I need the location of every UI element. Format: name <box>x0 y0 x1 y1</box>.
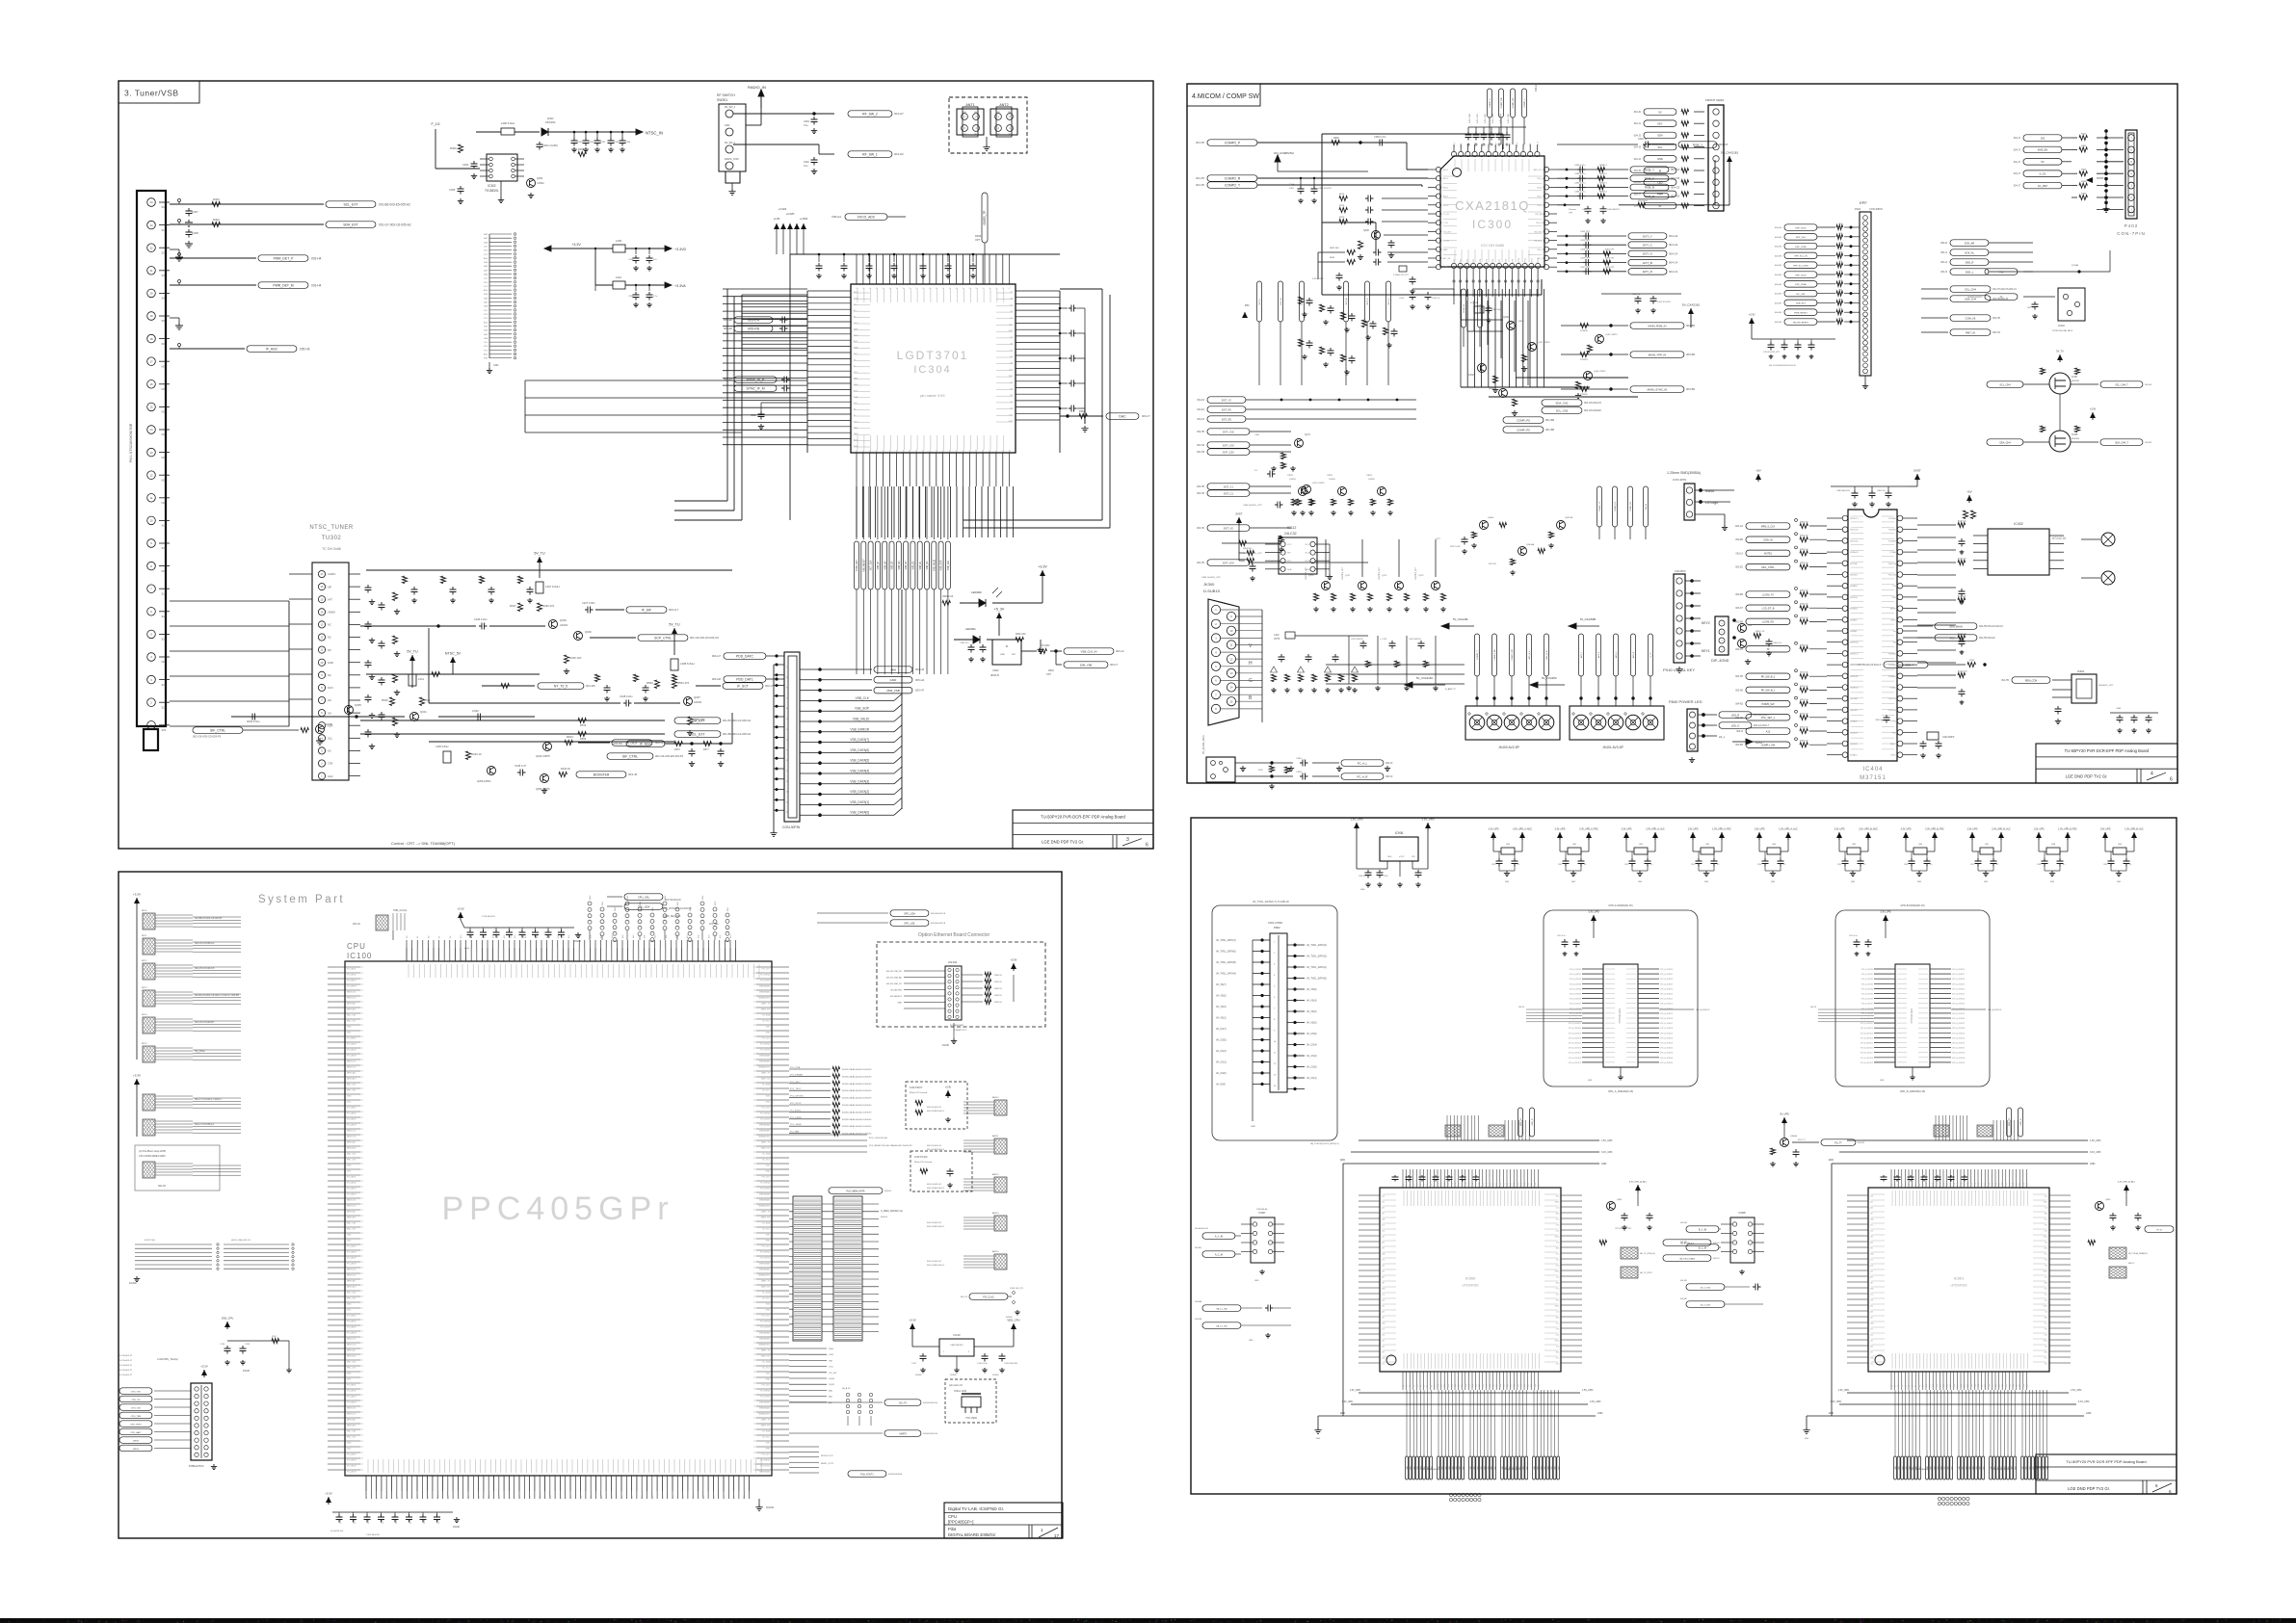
svg-text:SD6: SD6 <box>1460 1466 1462 1469</box>
svg-text:P40/AD0: P40/AD0 <box>1850 720 1858 723</box>
tuner TU302 (NTSC_TUNER) <box>309 525 360 780</box>
svg-text:15: 15 <box>321 597 324 601</box>
svg-text:SD4: SD4 <box>1548 1466 1550 1469</box>
resistor R347 <box>510 603 523 611</box>
svg-text:D3: D3 <box>1902 1385 1904 1387</box>
svg-text:GND: GND <box>890 678 898 682</box>
svg-text:UPD_A_SDRD11: UPD_A_SDRD11 <box>1861 1022 1873 1025</box>
TO252 dashed detail <box>945 1379 996 1423</box>
svg-text:UPD_D: UPD_D <box>1532 1118 1534 1125</box>
transistor Q304 <box>527 176 545 198</box>
svg-text:VIN: VIN <box>1412 856 1415 858</box>
svg-text:C184: C184 <box>1254 434 1260 436</box>
svg-text:CLK: CLK <box>1556 1208 1560 1210</box>
FOR PROT dashed box 2 <box>910 1151 972 1191</box>
svg-text:VA_TVDL_DATA(2): VA_TVDL_DATA(2) <box>1306 955 1327 958</box>
svg-text:D32: D32 <box>2002 1384 2004 1387</box>
svg-text:PCI_AD29: PCI_AD29 <box>347 1326 356 1329</box>
memory lower rows <box>789 1348 837 1404</box>
svg-text:P10/SEG: P10/SEG <box>1888 518 1896 520</box>
svg-text:C104: C104 <box>355 1520 356 1524</box>
svg-text:3. Tuner/VSB: 3. Tuner/VSB <box>124 89 179 98</box>
svg-text:27: 27 <box>786 801 789 803</box>
IC404 right rows <box>1917 521 1968 705</box>
svg-text:3: 3 <box>963 127 965 130</box>
IC304 right pins <box>1009 291 1060 423</box>
svg-text:pin name XXX: pin name XXX <box>920 393 945 398</box>
svg-text:VA_TVDL_DATA(0): VA_TVDL_DATA(0) <box>1306 978 1327 981</box>
svg-text:IF_SCT: IF_SCT <box>737 684 749 688</box>
svg-text:B38: B38 <box>560 1496 562 1499</box>
svg-text:001-C4-001-J4: 001-C4-001-J4 <box>927 1145 941 1147</box>
svg-text:C916: C916 <box>1904 864 1908 866</box>
transistor Q153 <box>1588 334 1619 353</box>
svg-text:VSB_SOP: VSB_SOP <box>941 560 943 570</box>
svg-text:C341: C341 <box>589 142 594 144</box>
svg-text:R513: R513 <box>580 723 587 727</box>
svg-text:UART0: UART0 <box>899 1432 907 1435</box>
svg-text:GND: GND <box>493 364 499 367</box>
svg-text:IIC_SDA: IIC_SDA <box>762 1014 770 1017</box>
svg-text:PCI_AD29: PCI_AD29 <box>347 1049 356 1052</box>
svg-text:005-H4: 005-H4 <box>915 678 925 682</box>
svg-text:UPD_A_SDRD2: UPD_A_SDRD2 <box>1570 978 1581 981</box>
svg-text:23: 23 <box>149 223 153 227</box>
svg-text:MEM_D15: MEM_D15 <box>347 1339 356 1341</box>
svg-text:P66/TM1: P66/TM1 <box>1850 575 1858 577</box>
svg-text:PCI_AD28: PCI_AD28 <box>347 1401 356 1404</box>
svg-text:GND: GND <box>1657 157 1663 161</box>
svg-text:IIC_SDA: IIC_SDA <box>762 1084 770 1086</box>
svg-text:R495 100: R495 100 <box>1800 727 1809 729</box>
svg-text:SD1: SD1 <box>1931 1466 1933 1469</box>
svg-text:C132: C132 <box>245 1344 251 1346</box>
IC404 M37151 microcontroller <box>1848 510 1897 781</box>
svg-text:L902: L902 <box>1639 844 1643 846</box>
svg-text:7: 7 <box>1215 693 1217 696</box>
svg-text:IF_SIF: IF_SIF <box>642 608 651 612</box>
svg-text:MEM_A11: MEM_A11 <box>347 1419 356 1422</box>
svg-text:CNVss: CNVss <box>1890 619 1896 621</box>
svg-text:0.1: 0.1 <box>1517 864 1520 866</box>
bottom right misc caps <box>2110 708 2158 733</box>
svg-text:PCI_AD29: PCI_AD29 <box>347 1188 356 1191</box>
svg-text:GND: GND <box>1870 1289 1874 1291</box>
svg-text:6: 6 <box>150 610 152 614</box>
connector P401 top-right <box>1634 98 1725 211</box>
svg-text:002-L5: 002-L5 <box>1736 552 1744 555</box>
svg-text:CIN: CIN <box>1870 1202 1874 1204</box>
svg-text:VA_TVDGA_DATA(0-5): VA_TVDGA_DATA(0-5) <box>2128 1252 2148 1255</box>
svg-text:VCC: VCC <box>1287 544 1292 546</box>
svg-text:LCOM_RX: LCOM_RX <box>1762 621 1774 624</box>
svg-text:PCI_AD28: PCI_AD28 <box>347 1193 356 1196</box>
svg-text:P7: P7 <box>1915 1184 1917 1186</box>
svg-text:GND: GND <box>2050 881 2055 883</box>
svg-text:004-H5: 004-H5 <box>1775 275 1782 276</box>
svg-text:Q341: Q341 <box>420 710 427 714</box>
svg-text:COMP_PR: COMP_PR <box>1513 97 1515 108</box>
svg-text:5V_TU: 5V_TU <box>534 552 545 556</box>
svg-text:001-H4-003-C8: 001-H4-003-C8 <box>931 913 946 915</box>
svg-text:004-J0: 004-J0 <box>1634 111 1642 114</box>
IC304 left bus <box>742 291 807 453</box>
svg-text:001-B6-003-G2-005-A2: 001-B6-003-G2-005-A2 <box>723 732 752 736</box>
svg-text:4DM-R: 4DM-R <box>990 673 999 677</box>
svg-text:IIC_SCL: IIC_SCL <box>762 1229 770 1231</box>
svg-text:3.3V_UPD: 3.3V_UPD <box>2090 1151 2101 1154</box>
svg-text:X302: X302 <box>992 668 999 672</box>
svg-text:D35: D35 <box>2013 1384 2015 1387</box>
svg-text:PC_A_L: PC_A_L <box>1358 761 1368 765</box>
svg-text:D18: D18 <box>1954 1384 1956 1387</box>
svg-text:P10/SEG: P10/SEG <box>1888 653 1896 655</box>
svg-text:VA_LC_IN1: VA_LC_IN1 <box>1216 1324 1227 1327</box>
svg-text:003-B6: 003-B6 <box>1686 387 1695 391</box>
svg-text:11: 11 <box>1274 1053 1276 1055</box>
svg-text:C97x 0.1u: C97x 0.1u <box>1849 935 1858 937</box>
svg-text:UART_TX: UART_TX <box>761 1419 771 1422</box>
svg-text:VA_TV_UPD2: VA_TV_UPD2 <box>1640 1271 1653 1274</box>
svg-text:NC: NC <box>162 660 166 664</box>
svg-text:D7: D7 <box>1915 1385 1917 1387</box>
svg-text:008-C2: 008-C2 <box>2128 1263 2134 1265</box>
svg-text:004-H5: 004-H5 <box>1775 322 1782 324</box>
svg-text:A18: A18 <box>503 935 506 938</box>
svg-text:R509: R509 <box>580 737 587 741</box>
svg-text:C1895: C1895 <box>1296 758 1303 760</box>
svg-text:UPD_A_SDRD30: UPD_A_SDRD30 <box>1952 1036 1965 1039</box>
svg-text:Rx49 100: Rx49 100 <box>1958 634 1966 636</box>
svg-text:TU-50PY20 PVR-DCR-EPF PDP Anal: TU-50PY20 PVR-DCR-EPF PDP Analog Board <box>2065 748 2150 753</box>
svg-text:SD7: SD7 <box>2015 1466 2017 1469</box>
svg-text:D23: D23 <box>1971 1384 1973 1387</box>
IC304 bottom fan wires <box>857 486 948 539</box>
svg-text:UPD_A_SDRD8: UPD_A_SDRD8 <box>1570 1008 1581 1010</box>
IC900 uPD64083 (left QFP) <box>1314 1115 1612 1479</box>
svg-text:IN1-2: IN1-2 <box>1443 170 1449 171</box>
svg-text:GND: GND <box>1571 881 1576 883</box>
right of left QFP cluster <box>1599 1181 1720 1262</box>
svg-text:D6: D6 <box>1424 1385 1426 1387</box>
svg-text:NC: NC <box>162 478 166 482</box>
svg-text:GND: GND <box>1555 1214 1559 1216</box>
svg-text:EXT_S: EXT_S <box>1388 298 1390 304</box>
svg-text:8: 8 <box>1215 707 1217 711</box>
svg-text:DO0: DO0 <box>1556 1231 1559 1233</box>
svg-text:5_CN: 5_CN <box>2040 172 2046 176</box>
svg-text:4.MICOM / COMP SW: 4.MICOM / COMP SW <box>1192 93 1259 100</box>
svg-text:CPU: CPU <box>948 1514 957 1519</box>
svg-text:P42/INT1: P42/INT1 <box>1850 609 1858 611</box>
svg-text:1: 1 <box>1274 942 1275 944</box>
svg-text:Option Ethernet Board Connecto: Option Ethernet Board Connector <box>918 932 990 938</box>
svg-text:P12: P12 <box>1933 1183 1935 1186</box>
svg-text:AD1: AD1 <box>1870 1276 1873 1279</box>
svg-text:C480 680u/10V: C480 680u/10V <box>1836 490 1851 492</box>
IC300 inner label bands <box>1443 159 1542 262</box>
svg-text:GND: GND <box>1555 1283 1559 1285</box>
svg-text:SCL: SCL <box>1657 145 1663 149</box>
svg-text:R364: R364 <box>1079 410 1085 413</box>
svg-text:SD6: SD6 <box>1523 1466 1525 1469</box>
P301 right net rows <box>816 589 925 817</box>
svg-text:Q150: Q150 <box>1503 316 1510 319</box>
svg-text:OVER_TP: OVER_TP <box>983 211 987 225</box>
svg-text:R679: R679 <box>1339 217 1345 219</box>
net PWR_DET_M <box>170 280 322 289</box>
svg-text:R455 1.2K: R455 1.2K <box>1755 631 1765 633</box>
svg-text:10: 10 <box>1230 629 1233 633</box>
svg-text:12: 12 <box>1274 1063 1276 1065</box>
svg-text:D27: D27 <box>1985 1384 1987 1387</box>
svg-text:MAIN_RGB_IN: MAIN_RGB_IN <box>1649 324 1667 327</box>
svg-text:SY1: SY1 <box>484 350 488 352</box>
P3 CPU inner tick bands <box>345 948 772 1491</box>
comp input RC cluster <box>1289 177 1428 225</box>
svg-text:25: 25 <box>786 792 789 794</box>
svg-text:REM_CON: REM_CON <box>2025 679 2038 682</box>
svg-text:P19: P19 <box>1468 1183 1470 1186</box>
svg-text:VDD: VDD <box>347 1033 352 1034</box>
svg-text:V: V <box>1249 643 1253 649</box>
capacitor C327 <box>582 601 595 614</box>
svg-text:CTRL: CTRL <box>1443 267 1449 269</box>
vert wires from IC300 bottom <box>1461 301 1528 385</box>
svg-text:001-C5-C5-003-C5: 001-C5-C5-003-C5 <box>195 967 215 970</box>
svg-text:SDA_EXT: SDA_EXT <box>1796 302 1807 305</box>
svg-text:B46: B46 <box>601 1496 603 1499</box>
svg-text:1: 1 <box>1721 623 1723 625</box>
panel 2 border (4.MICOM / COMP SW) <box>1187 84 2177 783</box>
svg-text:C105: C105 <box>368 1520 370 1524</box>
svg-text:GND: GND <box>963 134 967 136</box>
svg-text:SD3: SD3 <box>1938 1466 1940 1469</box>
svg-text:0.1u: 0.1u <box>804 165 808 168</box>
svg-text:NC: NC <box>162 410 166 414</box>
svg-text:UPD_A_SDRD19: UPD_A_SDRD19 <box>1952 982 1965 985</box>
P2 mid vertical pills <box>1462 289 1649 539</box>
svg-text:MEMADDR2: MEMADDR2 <box>759 1344 771 1347</box>
svg-text:004-J7: 004-J7 <box>2014 161 2021 164</box>
svg-text:29: 29 <box>786 812 789 814</box>
svg-text:GND: GND <box>1771 881 1776 883</box>
svg-text:IIC_SCL: IIC_SCL <box>762 1021 770 1023</box>
svg-text:RESET: RESET <box>1890 744 1897 746</box>
svg-text:OPT: OPT <box>1569 212 1573 214</box>
svg-text:COMP_Y: COMP_Y <box>1490 98 1491 108</box>
svg-text:MEM_A11: MEM_A11 <box>347 1211 356 1214</box>
PCI signal rows right <box>789 1066 871 1136</box>
svg-text:R164 1K: R164 1K <box>994 1002 1002 1004</box>
svg-text:RADIO_COM: RADIO_COM <box>725 158 738 161</box>
svg-text:P19: P19 <box>1957 1183 1959 1186</box>
IC304 supply arrows <box>774 207 808 254</box>
svg-text:3.3V_UPD_B_PSC: 3.3V_UPD_B_PSC <box>1925 829 1944 831</box>
svg-text:P15/AD: P15/AD <box>1889 551 1896 554</box>
svg-text:GND: GND <box>1704 881 1709 883</box>
svg-text:C408 OPT: C408 OPT <box>1580 249 1591 250</box>
svg-text:CLK: CLK <box>484 342 488 344</box>
svg-text:OUT7: OUT7 <box>1499 259 1501 264</box>
svg-text:VSB_D2: VSB_D2 <box>913 561 915 570</box>
svg-text:VCC: VCC <box>1870 1329 1874 1331</box>
svg-text:P61/SCL1: P61/SCL1 <box>1850 653 1859 655</box>
left QFP bottom circle rows <box>1449 1493 1481 1501</box>
transistor Q303 A1504 <box>549 618 568 629</box>
svg-text:CLK: CLK <box>484 310 488 312</box>
svg-text:DQM0: DQM0 <box>829 1378 835 1380</box>
svg-text:UPD_A_SDRD16: UPD_A_SDRD16 <box>1660 968 1673 971</box>
svg-text:1.5V_UPD_B_PSC: 1.5V_UPD_B_PSC <box>2058 829 2077 831</box>
svg-text:7: 7 <box>150 587 152 590</box>
svg-text:RA2: RA2 <box>484 297 488 300</box>
memory block A (UPD_A_SDRAM) <box>1518 903 1710 1093</box>
svg-text:1.5V_UPD_A_PSC: 1.5V_UPD_A_PSC <box>1712 828 1731 831</box>
svg-text:UPD_A_SDRD28: UPD_A_SDRD28 <box>1952 1027 1965 1030</box>
+3.3V filter L309 <box>544 239 686 271</box>
NTSC_IN arrow <box>628 129 663 136</box>
RCA vertical pills A <box>1475 634 1549 695</box>
svg-text:UPD_A_SDRD29: UPD_A_SDRD29 <box>1660 1032 1673 1034</box>
svg-text:RESET: RESET <box>1890 609 1897 611</box>
svg-text:17: 17 <box>786 749 789 751</box>
svg-text:DIGITAL BOARD 2005/01/: DIGITAL BOARD 2005/01/ <box>948 1532 996 1537</box>
VCXO pill right <box>975 193 988 284</box>
svg-text:DA7: DA7 <box>484 237 488 240</box>
svg-text:YIN: YIN <box>1870 1283 1874 1285</box>
svg-text:001-C4-B11-00-L2: 001-C4-B11-00-L2 <box>927 1188 945 1190</box>
svg-text:DGND: DGND <box>766 1505 774 1509</box>
+3.3VA filter L310 <box>594 248 686 307</box>
svg-text:SY1: SY1 <box>484 286 488 288</box>
svg-text:MEMDATA0: MEMDATA0 <box>759 1263 771 1266</box>
capacitor C308 <box>185 229 198 248</box>
P2 mid right pills <box>1921 286 2017 336</box>
svg-text:C407 OPT: C407 OPT <box>1580 267 1591 269</box>
svg-text:004-J2: 004-J2 <box>1634 134 1642 137</box>
svg-text:GND: GND <box>347 1235 352 1237</box>
connector PX40 LOCAL KEY <box>1663 570 1710 672</box>
svg-text:EBC_CS1: EBC_CS1 <box>347 1160 356 1162</box>
svg-text:16: 16 <box>149 382 153 386</box>
svg-text:B36: B36 <box>550 1496 552 1499</box>
svg-text:R470: R470 <box>1258 770 1264 772</box>
svg-text:C107: C107 <box>396 1520 398 1524</box>
svg-text:MEM_A10: MEM_A10 <box>347 1355 356 1358</box>
svg-text:SD5: SD5 <box>1551 1466 1553 1469</box>
svg-text:40KHz/15_OPT: 40KHz/15_OPT <box>2098 685 2114 687</box>
svg-text:JK300: JK300 <box>1203 582 1215 587</box>
svg-text:004-H5: 004-H5 <box>1775 312 1782 314</box>
svg-text:+5V: +5V <box>1966 490 1971 494</box>
svg-text:D16: D16 <box>1947 1384 1949 1387</box>
connector P601 (tuner board input) <box>129 191 170 750</box>
svg-text:IN1_NV-1: IN1_NV-1 <box>1534 241 1544 243</box>
IC100 top pin stubs <box>406 935 736 961</box>
svg-text:AR111: AR111 <box>992 1135 999 1138</box>
svg-text:VSB_DATA[6]: VSB_DATA[6] <box>850 748 869 752</box>
svg-text:P24: P24 <box>1486 1183 1488 1186</box>
svg-text:C441 100/16V: C441 100/16V <box>1409 639 1421 641</box>
svg-text:System Part: System Part <box>258 894 345 905</box>
svg-text:R309: R309 <box>450 146 457 150</box>
svg-text:SD5: SD5 <box>1488 1466 1490 1469</box>
svg-text:OUT1: OUT1 <box>1461 259 1463 264</box>
svg-text:UPD_A_SDRD6: UPD_A_SDRD6 <box>1861 998 1873 1001</box>
bottom right cap pair <box>1601 294 1681 313</box>
svg-text:UPD_B_SDRA(0-4): UPD_B_SDRA(0-4) <box>1911 1468 1928 1471</box>
svg-text:P20/COM: P20/COM <box>1888 698 1897 700</box>
svg-text:TK15819L: TK15819L <box>485 189 499 193</box>
svg-text:PCI_IDSEL: PCI_IDSEL <box>790 1110 802 1112</box>
svg-text:M37151: M37151 <box>1860 775 1887 781</box>
svg-text:B0: B0 <box>366 1497 368 1499</box>
svg-text:A_C_IN: A_C_IN <box>1215 1253 1224 1256</box>
svg-text:OUT5: OUT5 <box>1487 259 1489 264</box>
svg-text:PCI_GNT0: PCI_GNT0 <box>760 1189 771 1191</box>
svg-text:R481 100: R481 100 <box>1800 536 1809 537</box>
svg-text:011-B5-C5A-B4-0-B-005-C5-E16-F: 011-B5-C5A-B4-0-B-005-C5-E16-F5 <box>842 1104 871 1107</box>
svg-text:B66: B66 <box>703 1496 705 1499</box>
svg-text:VDD_CPU: VDD_CPU <box>222 1317 234 1321</box>
svg-text:UPD_A_SDRD32: UPD_A_SDRD32 <box>1660 1047 1673 1050</box>
svg-text:B26: B26 <box>499 1496 501 1499</box>
svg-text:C141: C141 <box>911 1363 917 1365</box>
svg-text:GND: GND <box>1597 1412 1603 1415</box>
svg-text:P1: P1 <box>1407 1184 1409 1186</box>
svg-text:CON-7PIN: CON-7PIN <box>2117 231 2146 236</box>
svg-text:D754A4: D754A4 <box>2072 264 2079 267</box>
svg-text:IIC_SCL: IIC_SCL <box>762 1090 770 1092</box>
svg-text:AV3_Y: AV3_Y <box>1580 651 1583 658</box>
svg-text:4: 4 <box>1009 127 1011 130</box>
svg-text:D36: D36 <box>1528 1384 1530 1387</box>
svg-text:VD5: VD5 <box>484 314 488 316</box>
svg-text:D15: D15 <box>1943 1384 1945 1387</box>
svg-text:P22: P22 <box>1479 1183 1481 1186</box>
svg-text:003-D2: 003-D2 <box>881 1217 888 1218</box>
transistor Q306 A1504 <box>477 767 496 784</box>
svg-text:R149: R149 <box>702 896 704 900</box>
svg-text:R684: R684 <box>1330 257 1335 259</box>
svg-text:D26: D26 <box>1982 1384 1984 1387</box>
svg-text:GND: GND <box>347 1374 352 1375</box>
svg-text:MEM_A10: MEM_A10 <box>347 1008 356 1011</box>
mid long wires ladder to IC304 <box>525 380 807 432</box>
svg-text:VA_CS(0): VA_CS(0) <box>1306 1066 1317 1069</box>
svg-text:C114 68u/10V: C114 68u/10V <box>482 916 495 918</box>
IC100 right pin stubs <box>759 967 789 1474</box>
svg-text:C360: C360 <box>751 414 756 417</box>
svg-text:002-H4: 002-H4 <box>1993 331 2001 334</box>
svg-text:LED_R: LED_R <box>1731 713 1739 717</box>
svg-text:SY1: SY1 <box>484 254 488 256</box>
svg-text:+3.3V: +3.3V <box>909 1319 916 1322</box>
svg-text:004-C5: 004-C5 <box>1671 185 1680 189</box>
svg-text:PCI_AD29: PCI_AD29 <box>347 1118 356 1121</box>
svg-text:001-B5-IRQ: 001-B5-IRQ <box>890 990 902 992</box>
diode D301 KDS184 <box>541 117 568 136</box>
svg-text:004-J1: 004-J1 <box>1634 122 1642 125</box>
svg-text:C409 OPT: C409 OPT <box>1580 258 1591 260</box>
svg-text:C112: C112 <box>563 934 565 938</box>
svg-text:CLK: CLK <box>1556 1347 1560 1348</box>
svg-text:SCL_EXT: SCL_EXT <box>343 202 357 206</box>
svg-text:2: 2 <box>975 116 977 118</box>
svg-text:VCC: VCC <box>1382 1225 1386 1227</box>
svg-text:R570 51.6K: R570 51.6K <box>1450 546 1461 548</box>
